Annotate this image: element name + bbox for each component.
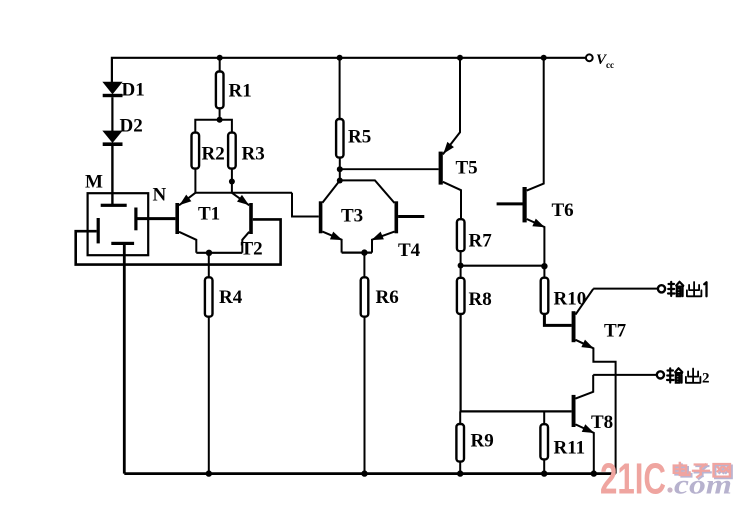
resistor R4 xyxy=(205,277,213,316)
node R4 bottom rail xyxy=(206,470,212,476)
wire R3 bottom lead xyxy=(231,169,233,193)
wire T2 base wrap-around to left plate xyxy=(76,219,281,264)
transistor T1 xyxy=(175,193,196,253)
label output1 xyxy=(668,282,707,297)
wire output2 xyxy=(593,374,656,376)
node R5 collector branch xyxy=(337,178,343,184)
wire emitter cup T3-T4 xyxy=(342,252,372,254)
wire collector bus T1-T2 xyxy=(195,192,292,194)
svg-text:D2: D2 xyxy=(120,116,143,137)
wire R5 bottom lead xyxy=(339,158,341,181)
node emitters T3 T4 xyxy=(361,249,367,255)
svg-text:R6: R6 xyxy=(376,287,399,308)
transducer top plate xyxy=(101,204,127,207)
resistor R3 xyxy=(228,133,236,169)
wire transducer bottom stem to bottom rail xyxy=(123,245,126,474)
svg-text:T2: T2 xyxy=(241,239,263,260)
wire R9 to bottom rail xyxy=(459,462,461,474)
svg-text:R4: R4 xyxy=(219,287,243,308)
svg-text:21IC: 21IC xyxy=(600,455,666,504)
transducer bottom plate xyxy=(111,242,134,245)
wire R2 bottom lead xyxy=(194,169,196,193)
svg-text:R2: R2 xyxy=(202,144,225,165)
node T6 emitter R10 xyxy=(541,263,547,269)
node R6 bottom rail xyxy=(361,470,367,476)
svg-text:T6: T6 xyxy=(552,200,574,221)
wire R11 top lead xyxy=(543,411,545,424)
transistor T8 xyxy=(572,375,596,474)
transistor T7 xyxy=(572,289,616,474)
wire T4 collector feed xyxy=(340,180,395,203)
terminal output1 xyxy=(658,285,665,292)
wire top supply rail xyxy=(112,58,586,82)
transducer right plate xyxy=(134,208,137,231)
transistor T4 xyxy=(370,201,425,252)
svg-text:R8: R8 xyxy=(469,289,492,310)
wire emitter cup T1-T2 xyxy=(196,252,242,254)
svg-text:T5: T5 xyxy=(456,158,478,179)
diode D2 xyxy=(103,131,123,146)
wire node to T5 base xyxy=(340,168,439,170)
svg-text:M: M xyxy=(85,172,103,193)
node R9 bottom rail xyxy=(457,470,463,476)
svg-text:R5: R5 xyxy=(348,127,371,148)
resistor R7 xyxy=(457,219,465,251)
wire R6 to bottom rail xyxy=(364,317,366,474)
resistor R1 xyxy=(216,72,224,109)
wire R11 to bottom rail xyxy=(543,459,545,473)
node T8 emitter bottom rail xyxy=(591,470,597,476)
wire output1 xyxy=(593,288,657,290)
svg-text:R11: R11 xyxy=(554,438,586,459)
label output2 xyxy=(667,368,700,383)
node emitters T1 T2 xyxy=(206,250,212,256)
svg-text:T4: T4 xyxy=(398,240,421,261)
transistor T2 xyxy=(232,193,253,253)
node top rail R5 xyxy=(337,55,343,61)
wire bus to T3 base xyxy=(292,193,319,217)
node top rail R1 xyxy=(217,55,223,61)
node top rail T6 xyxy=(541,55,547,61)
resistor R10 xyxy=(541,278,549,314)
node R7 R8 junction xyxy=(458,263,464,269)
svg-text:2: 2 xyxy=(702,371,710,387)
wire node N to T1 base xyxy=(138,217,176,220)
wire R8 bottom to T8 base xyxy=(461,314,572,411)
resistor R8 xyxy=(457,278,465,314)
svg-text:N: N xyxy=(153,185,167,206)
node R11 bottom rail xyxy=(541,470,547,476)
node R5 base branch xyxy=(337,166,343,172)
resistor R2 xyxy=(192,133,200,169)
wire R10 bottom to T7 base xyxy=(544,314,571,326)
transducer left plate xyxy=(97,218,100,243)
svg-text:T3: T3 xyxy=(341,206,363,227)
svg-text:R9: R9 xyxy=(471,431,494,452)
watermark dianziwang xyxy=(674,463,732,479)
wire node to R4 xyxy=(208,253,210,277)
node top rail T5 xyxy=(457,55,463,61)
wire R7 bottom to R8 top xyxy=(460,251,462,278)
label Vcc xyxy=(596,52,614,70)
svg-text:R3: R3 xyxy=(242,144,265,165)
resistor R6 xyxy=(361,277,369,316)
wire D1 to D2 xyxy=(111,97,113,131)
resistor R11 xyxy=(540,424,548,459)
svg-text:T8: T8 xyxy=(591,412,613,433)
resistor R9 xyxy=(456,424,464,462)
terminal Vcc xyxy=(586,54,593,61)
wire R1 bottom to split node xyxy=(219,108,221,120)
svg-text:R7: R7 xyxy=(469,231,493,252)
wire junction to T6 emitter node xyxy=(461,265,545,267)
svg-text:D1: D1 xyxy=(122,80,145,101)
diode D1 xyxy=(103,82,123,97)
node below R1 xyxy=(217,117,223,123)
wire split to R2 and R3 tops xyxy=(195,120,232,133)
resistor R5 xyxy=(336,119,343,158)
wire R4 to bottom rail xyxy=(208,317,210,474)
wire node to R6 xyxy=(363,253,365,278)
svg-text:T7: T7 xyxy=(604,321,627,342)
svg-text:R1: R1 xyxy=(229,81,252,102)
transistor T3 xyxy=(319,181,344,253)
transistor T6 xyxy=(497,58,547,266)
wire bottom rail xyxy=(124,472,615,475)
wire R9 top lead xyxy=(459,411,461,424)
svg-text:T1: T1 xyxy=(198,204,220,225)
transducer M box xyxy=(88,193,149,255)
terminal output2 xyxy=(657,371,664,378)
wire rail to R1 xyxy=(219,58,221,72)
wire node to R10 xyxy=(543,266,545,278)
transistor T5 xyxy=(439,58,461,219)
watermark dot xyxy=(667,487,672,492)
wire rail to R5 xyxy=(339,58,341,119)
wire D2 to transducer top plate xyxy=(111,146,113,206)
node R3 branch xyxy=(229,179,235,185)
svg-text:cc: cc xyxy=(606,60,614,70)
